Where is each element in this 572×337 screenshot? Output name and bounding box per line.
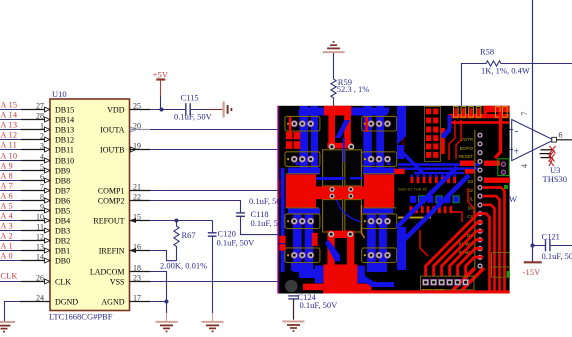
capacitor C121: [533, 232, 572, 261]
net label A0: [1, 251, 14, 260]
wire LADCOM down to AGND node: [150, 272, 167, 302]
svg-text:7: 7: [520, 112, 529, 116]
pin 28 (DB14) of U10 with wire: [0, 111, 74, 124]
pin 4 (DB10) of U10 with wire: [0, 152, 74, 165]
svg-text:2.00K, 0.01%: 2.00K, 0.01%: [160, 261, 207, 271]
svg-text:DB14: DB14: [55, 116, 74, 125]
svg-text:COMP2: COMP2: [98, 197, 125, 206]
svg-text:A 8: A 8: [1, 171, 14, 180]
svg-text:A 4: A 4: [1, 211, 14, 220]
net label A6: [1, 191, 14, 200]
svg-text:LADCOM: LADCOM: [90, 268, 125, 277]
svg-text:A 1: A 1: [1, 241, 14, 250]
svg-text:DB8: DB8: [55, 177, 70, 186]
svg-text:DB6: DB6: [55, 197, 70, 206]
svg-text:DB15: DB15: [55, 106, 74, 115]
svg-text:DB13: DB13: [55, 126, 74, 135]
wire C115 to ground: [191, 109, 223, 111]
resistor R67: [160, 221, 207, 271]
svg-text:DB2: DB2: [55, 237, 70, 246]
svg-text:LTC1668CG#PBF: LTC1668CG#PBF: [49, 312, 113, 322]
wire AGND to ground: [150, 300, 169, 322]
op-amp U3 THS3091: [512, 112, 572, 185]
svg-text:4: 4: [520, 164, 529, 168]
svg-text:CLK: CLK: [1, 272, 18, 281]
wire IOUTA to PCB / op-amp minus input: [150, 129, 513, 131]
value label 0.1uF, 50V (hidden cap): [249, 196, 288, 206]
svg-text:A 5: A 5: [1, 201, 14, 210]
svg-text:A 11: A 11: [1, 140, 18, 149]
wire REFOUT to R67 and C120: [150, 219, 213, 223]
pin 19 (IOUTB) of U10: [100, 141, 150, 154]
svg-text:1K, 1%, 0.4W: 1K, 1%, 0.4W: [481, 66, 530, 76]
svg-text:BO/PO: BO/PO: [460, 146, 474, 151]
wire C120 to ground: [212, 237, 214, 321]
svg-text:C121: C121: [542, 232, 560, 242]
svg-text:A 3: A 3: [1, 221, 14, 230]
pin 21 (COMP1) of U10: [98, 182, 150, 195]
svg-text:0.1uF, 50V: 0.1uF, 50V: [300, 300, 339, 310]
wire IOUTB to PCB / op-amp plus input: [150, 149, 513, 151]
net label A14: [1, 110, 18, 119]
svg-text:DB10: DB10: [55, 157, 74, 166]
svg-text:0.1uF, 50V: 0.1uF, 50V: [174, 112, 213, 122]
pin 13 (DB1) of U10 with wire: [0, 242, 70, 255]
net label CLK: [1, 272, 18, 281]
svg-text:RESET: RESET: [459, 154, 473, 159]
partially hidden value label W: [509, 194, 517, 204]
ground below C120: [202, 322, 224, 332]
power +5V: [153, 71, 169, 110]
svg-text:-15V: -15V: [523, 268, 541, 277]
svg-text:A 13: A 13: [1, 120, 18, 129]
svg-text:VDD: VDD: [107, 106, 125, 115]
wire VDD pin25 to +5V junction and C115: [150, 108, 185, 112]
pin 14 (DB0) of U10 with wire: [0, 252, 70, 265]
svg-text:DB0: DB0: [55, 257, 70, 266]
pin 27 (DB15) of U10 with wire: [0, 101, 74, 114]
svg-text:U10: U10: [52, 89, 67, 99]
pin 8 (DB6) of U10 with wire: [0, 192, 70, 205]
power -15V: [523, 262, 542, 277]
wire vertical supply rail to -15V: [531, 0, 535, 262]
ground above R59 (inverted): [323, 42, 345, 52]
pin 2 (DB12) of U10 with wire: [0, 131, 74, 144]
pin 25 (VDD) of U10: [107, 101, 150, 114]
svg-text:AGND: AGND: [101, 298, 124, 307]
svg-text:IOUTB: IOUTB: [100, 146, 124, 155]
pin 22 (COMP2) of U10: [98, 192, 150, 205]
ground below AGND: [156, 322, 178, 332]
pin 6 (DB8) of U10 with wire: [0, 172, 70, 185]
svg-text:VSS: VSS: [110, 278, 125, 287]
net label A7: [1, 181, 14, 190]
svg-text:DB4: DB4: [55, 217, 70, 226]
svg-text:A 15: A 15: [1, 100, 18, 109]
svg-text:A 7: A 7: [1, 181, 14, 190]
svg-text:A 6: A 6: [1, 191, 14, 200]
resistor R58: [462, 47, 572, 108]
svg-text:W: W: [509, 194, 517, 204]
pin 15 (REFOUT) of U10: [93, 212, 150, 225]
svg-text:+5V: +5V: [153, 71, 169, 80]
net label A3: [1, 221, 14, 230]
svg-text:-: -: [515, 125, 519, 137]
IC U10 LTC1668CG#PBF: [49, 89, 130, 322]
svg-text:THS30: THS30: [543, 174, 568, 184]
svg-text:R67: R67: [182, 230, 196, 240]
svg-text:SUC-01 TUE-02: SUC-01 TUE-02: [398, 187, 428, 192]
svg-text:0.1uF, 50V: 0.1uF, 50V: [217, 238, 256, 248]
svg-text:IREFIN: IREFIN: [99, 247, 125, 256]
capacitor C124: [288, 292, 338, 310]
no-ERC marks on unused op-amp pins: [540, 146, 556, 166]
net label A9: [1, 161, 14, 170]
net label A1: [1, 241, 14, 250]
svg-text:DB3: DB3: [55, 227, 70, 236]
ground (sideways) right of C115: [224, 102, 232, 118]
pin 20 (IOUTA) of U10: [100, 121, 150, 134]
svg-text:R58: R58: [480, 47, 494, 57]
svg-text:DB12: DB12: [55, 136, 74, 145]
capacitor C120: [208, 221, 255, 248]
pin 24 (DGND) of U10 with wire: [5, 293, 79, 321]
capacitor C115: [174, 93, 213, 122]
svg-text:A 12: A 12: [1, 130, 18, 139]
pin 12 (DB2) of U10 with wire: [0, 232, 70, 245]
pin 1 (DB13) of U10 with wire: [0, 121, 74, 134]
net label A12: [1, 130, 18, 139]
ground below DGND: [0, 322, 15, 332]
svg-text:52.3 , 1%: 52.3 , 1%: [337, 84, 370, 94]
pin 16 (IREFIN) of U10: [99, 242, 150, 255]
net label A4: [1, 211, 14, 220]
capacitor C118: [236, 209, 289, 228]
svg-text:DGND: DGND: [55, 298, 78, 307]
svg-text:D3: D3: [468, 179, 474, 184]
svg-text:DB1: DB1: [55, 247, 70, 256]
net label A2: [1, 231, 14, 240]
pin 3 (DB11) of U10 with wire: [0, 141, 74, 154]
pin 11 (DB3) of U10 with wire: [0, 222, 70, 235]
pin 17 (AGND) of U10: [101, 293, 150, 306]
net label A10: [1, 151, 18, 160]
net label A8: [1, 171, 14, 180]
pin 18 (LADCOM) of U10: [90, 263, 150, 276]
pin 9 (DB5) of U10 with wire: [0, 202, 70, 215]
svg-text:A 10: A 10: [1, 151, 18, 160]
svg-text:0.1uF, 50V: 0.1uF, 50V: [542, 251, 572, 261]
svg-text:A 9: A 9: [1, 161, 14, 170]
svg-text:C115: C115: [181, 93, 199, 103]
net label A13: [1, 120, 18, 129]
svg-text:6: 6: [559, 131, 563, 140]
svg-text:A 0: A 0: [1, 251, 14, 260]
wire COMP2 to C118: [150, 201, 241, 213]
wire C118 bottom into PCB: [241, 217, 291, 235]
svg-text:COMP1: COMP1: [98, 187, 125, 196]
PCB layout image: [277, 106, 510, 294]
svg-text:A 14: A 14: [1, 110, 18, 119]
svg-text:REFOUT: REFOUT: [93, 217, 124, 226]
svg-text:M21084A: M21084A: [277, 179, 282, 198]
wire R67 bottom to IREFIN: [150, 251, 177, 261]
svg-text:DV/TR: DV/TR: [460, 137, 473, 142]
svg-text:DB7: DB7: [55, 187, 70, 196]
svg-text:DB11: DB11: [55, 146, 74, 155]
pin 5 (DB9) of U10 with wire: [0, 162, 70, 175]
ground below C124: [283, 321, 305, 331]
pin 23 (VSS) of U10: [110, 273, 150, 286]
svg-text:+: +: [514, 147, 520, 158]
svg-text:DB5: DB5: [55, 207, 70, 216]
svg-text:CLK: CLK: [55, 278, 71, 287]
resistor R59: [331, 53, 369, 107]
svg-text:A 2: A 2: [1, 231, 14, 240]
wire C124 to ground: [293, 299, 295, 320]
pin 10 (DB4) of U10 with wire: [0, 212, 70, 225]
net label A5: [1, 201, 14, 210]
svg-text:DB9: DB9: [55, 167, 70, 176]
svg-text:IOUTA: IOUTA: [100, 126, 124, 135]
wire VSS into PCB: [150, 281, 290, 283]
pin 26 (CLK) of U10 with wire: [0, 273, 71, 286]
pin 7 (DB7) of U10 with wire: [0, 182, 70, 195]
wire COMP1 into PCB: [150, 190, 290, 192]
net label A15: [1, 100, 18, 109]
net label A11: [1, 140, 18, 149]
